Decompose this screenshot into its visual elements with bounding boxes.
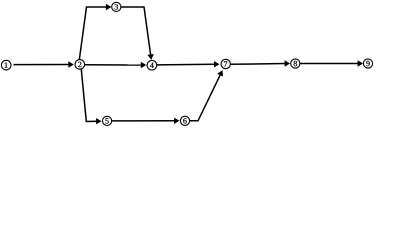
node 7 — [221, 59, 230, 68]
node 8 — [291, 59, 300, 68]
wire edge 2->3 — [79, 4, 111, 60]
wire edge 3->4 — [121, 7, 154, 60]
wire edge 4->7 — [157, 61, 220, 67]
node 5 — [103, 116, 112, 125]
wire edge 2->4 — [85, 62, 147, 68]
node 6 — [180, 116, 189, 125]
node 2 — [75, 60, 85, 70]
wire edge 6->7 — [190, 70, 223, 121]
node 4 — [147, 60, 157, 70]
wire edge 1->2 — [14, 61, 74, 67]
node 9 — [363, 59, 372, 68]
wire edge 7->8 — [231, 60, 291, 66]
wire edge 2->5 — [81, 69, 101, 124]
wire edge 5->6 — [112, 118, 180, 124]
node 1 — [1, 60, 11, 70]
node 3 — [112, 2, 121, 11]
wire edge 8->9 — [300, 60, 363, 66]
